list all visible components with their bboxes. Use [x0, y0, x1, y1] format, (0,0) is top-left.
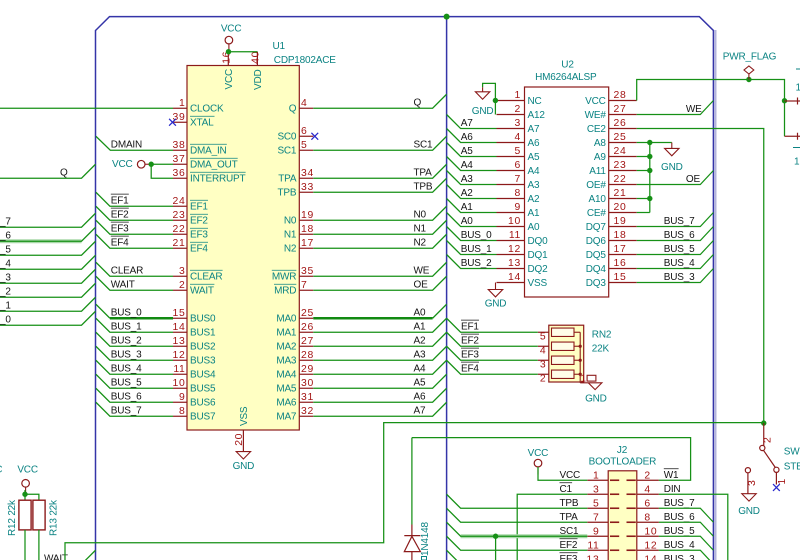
RN2 element 3	[552, 356, 575, 364]
svg-text:30: 30	[301, 378, 314, 389]
svg-text:7: 7	[593, 513, 599, 524]
RN2 pin 1 to ground	[579, 381, 581, 384]
svg-text:11: 11	[509, 230, 521, 241]
svg-text:MRD: MRD	[274, 286, 296, 297]
svg-text:11: 11	[587, 541, 599, 552]
svg-text:BUS_5: BUS_5	[111, 378, 142, 389]
svg-text:BUS_7: BUS_7	[111, 406, 142, 417]
svg-text:38: 38	[173, 140, 186, 151]
svg-text:GND: GND	[233, 461, 255, 472]
svg-text:BUS4: BUS4	[190, 370, 216, 381]
svg-text:VSS: VSS	[528, 278, 548, 289]
svg-text:TPA: TPA	[414, 168, 433, 179]
svg-text:24: 24	[173, 196, 186, 207]
svg-text:1: 1	[179, 98, 185, 109]
svg-text:A12: A12	[528, 110, 546, 121]
svg-text:29: 29	[301, 364, 314, 375]
GND rail vertical	[649, 143, 651, 213]
J2 pin 12	[637, 549, 659, 551]
svg-text:27: 27	[301, 336, 314, 347]
svg-text:A2: A2	[528, 194, 540, 205]
svg-text:12: 12	[173, 350, 186, 361]
svg-text:MA6: MA6	[276, 398, 297, 409]
U2 pin 18 (DQ6)	[609, 240, 637, 242]
svg-text:20: 20	[614, 202, 627, 213]
wire CE2 going right and down	[637, 129, 764, 424]
svg-text:SC1: SC1	[414, 140, 433, 151]
svg-text:WE#: WE#	[585, 110, 607, 121]
svg-text:28: 28	[614, 90, 627, 101]
svg-text:N1: N1	[414, 224, 427, 235]
junction VCC R12/R13	[22, 492, 27, 497]
junction VCC/DMA_OUT	[149, 162, 154, 167]
wire TPB with diagonal from frame	[447, 494, 588, 508]
svg-text:BUS_7: BUS_7	[0, 217, 11, 228]
svg-text:BUS_3: BUS_3	[111, 350, 142, 361]
svg-text:MA7: MA7	[276, 412, 297, 423]
wire BUS_6 at left edge with diagonal	[0, 239, 82, 243]
wire N1 to frame with diagonal	[313, 220, 446, 234]
svg-text:EF2: EF2	[190, 216, 208, 227]
svg-text:VDD: VDD	[253, 69, 264, 90]
svg-text:EF2: EF2	[461, 336, 479, 347]
RN2 common rail	[579, 332, 581, 382]
svg-text:15: 15	[614, 272, 627, 283]
svg-text:GND: GND	[585, 394, 607, 405]
svg-text:EF2: EF2	[560, 540, 578, 551]
svg-text:A2: A2	[461, 188, 473, 199]
U2 pin 9 (A1)	[497, 212, 525, 214]
wire BUS_5 from J2 to frame with diagonal	[659, 536, 714, 550]
svg-text:A0: A0	[414, 308, 426, 319]
svg-text:BUS_5: BUS_5	[0, 245, 11, 256]
svg-text:W1: W1	[664, 470, 679, 481]
wire BUS_3 at left edge with diagonal	[0, 269, 96, 283]
svg-text:13: 13	[587, 555, 600, 560]
U2 pin 24 (A9)	[609, 156, 637, 158]
svg-text:C1: C1	[560, 484, 573, 495]
svg-text:8: 8	[644, 513, 650, 524]
ground near U2 A8	[671, 143, 673, 149]
svg-text:3: 3	[179, 266, 185, 277]
svg-text:VCC: VCC	[17, 465, 38, 476]
U2 pin 28 (VCC)	[609, 100, 637, 102]
svg-text:BUS_3: BUS_3	[664, 272, 695, 283]
svg-text:EF1: EF1	[111, 196, 129, 207]
wire EF2 with diagonal from frame	[96, 206, 173, 220]
U1 pin 10 (BUS5)	[173, 387, 187, 389]
wire W1 branch down to diode	[411, 438, 413, 525]
svg-text:1: 1	[796, 83, 800, 94]
svg-text:BUS_7: BUS_7	[664, 498, 695, 509]
svg-text:31: 31	[301, 392, 314, 403]
U2 pin 12 (DQ1)	[497, 254, 525, 256]
svg-text:16: 16	[614, 258, 627, 269]
U1 pin 34 (TPA)	[299, 177, 313, 179]
svg-text:26: 26	[301, 322, 314, 333]
wire A7 to U2 with diagonal from frame	[447, 115, 497, 129]
J2 pin 8	[637, 521, 659, 523]
svg-text:BUS_6: BUS_6	[664, 230, 695, 241]
svg-text:DQ1: DQ1	[528, 250, 549, 261]
wire EF3 with diagonal from frame (clipped)	[447, 550, 588, 560]
svg-text:CLEAR: CLEAR	[111, 266, 143, 277]
svg-text:12: 12	[644, 541, 657, 552]
svg-text:21: 21	[173, 238, 186, 249]
svg-text:TPB: TPB	[560, 498, 579, 509]
J2 pin 6	[637, 507, 659, 509]
svg-text:NC: NC	[528, 96, 542, 107]
svg-text:14: 14	[508, 272, 521, 283]
wire below R12	[24, 530, 26, 560]
svg-text:TPA: TPA	[278, 174, 297, 185]
svg-text:MA0: MA0	[276, 314, 297, 325]
J2 pin 4	[637, 493, 659, 495]
wire MA1 to frame with diagonal	[313, 318, 446, 332]
graphic frame divider (blue vertical)	[446, 17, 448, 560]
U2 pin 26 (CE2)	[609, 128, 637, 130]
wire C1 from J2 pin 3	[517, 494, 587, 560]
wire EF4 with diagonal from frame	[96, 234, 173, 248]
U1 pin 19 (N0)	[299, 219, 313, 221]
svg-text:A6: A6	[528, 138, 540, 149]
svg-text:27: 27	[614, 104, 627, 115]
svg-text:WE: WE	[414, 266, 430, 277]
svg-text:DQ4: DQ4	[586, 264, 607, 275]
svg-text:BUS_2: BUS_2	[461, 258, 492, 269]
RN2 element 1	[552, 328, 575, 336]
U1 pin 11 (BUS4)	[173, 373, 187, 375]
U2 pin 16 (DQ4)	[609, 268, 637, 270]
IC U1 CDP1802ACE body	[187, 66, 299, 431]
svg-text:DQ7: DQ7	[586, 222, 607, 233]
svg-text:1: 1	[794, 157, 800, 168]
U2 pin 22 (OE#)	[609, 184, 637, 186]
wire BUS_5 to frame with diagonal	[637, 241, 714, 255]
U2 pin 17 (DQ5)	[609, 254, 637, 256]
U2 pin 7 (A3)	[497, 184, 525, 186]
U1 pin 24 (EF1)	[173, 205, 187, 207]
U1 pin 30 (MA5)	[299, 387, 313, 389]
svg-text:EF3: EF3	[190, 230, 208, 241]
wire BUS_7 to frame with diagonal	[637, 213, 714, 227]
U1 pin 39 (XTAL)	[173, 121, 187, 123]
wire BUS_0 to U2 with diagonal from frame	[447, 227, 497, 241]
svg-text:A7: A7	[461, 118, 473, 129]
wire BUS_4 to frame with diagonal	[637, 255, 714, 269]
svg-text:TPA: TPA	[560, 512, 579, 523]
U1 pin 33 (TPB)	[299, 191, 313, 193]
svg-text:N1: N1	[284, 230, 297, 241]
U2 pin 21 (A10)	[609, 198, 637, 200]
diode D? 1N4148	[411, 525, 413, 536]
svg-text:32: 32	[301, 406, 314, 417]
wire A4 to U2 with diagonal from frame	[447, 157, 497, 171]
svg-text:18: 18	[614, 230, 627, 241]
wire TPA to frame with diagonal	[313, 164, 446, 178]
svg-text:7: 7	[515, 174, 521, 185]
RN2 pin 4	[538, 345, 549, 347]
wire BUS_6 to frame with diagonal	[637, 227, 714, 241]
svg-text:EF3: EF3	[560, 554, 578, 560]
svg-text:3: 3	[747, 480, 758, 486]
U2 pin 11 (DQ0)	[497, 240, 525, 242]
junction at switch feed	[761, 420, 766, 425]
svg-text:17: 17	[301, 238, 314, 249]
svg-text:A5: A5	[414, 378, 426, 389]
svg-text:25: 25	[301, 308, 314, 319]
svg-text:MA1: MA1	[276, 328, 297, 339]
svg-text:2: 2	[515, 104, 521, 115]
svg-text:VCC: VCC	[112, 159, 133, 170]
U1 pin 26 (MA1)	[299, 331, 313, 333]
wire BUS_1 to U2 with diagonal from frame	[447, 241, 497, 255]
U2 pin 14 (VSS)	[497, 282, 525, 284]
U1 pin 8 (BUS7)	[173, 415, 187, 417]
U1 pin 25 (MA0)	[299, 317, 313, 319]
RN2 pin 2	[538, 373, 549, 375]
svg-text:A11: A11	[589, 166, 606, 177]
svg-text:VSS: VSS	[239, 406, 250, 426]
U2 pin 13 (DQ2)	[497, 268, 525, 270]
U1 pin 3 (CLEAR)	[173, 275, 187, 277]
wire SC1 to frame with diagonal	[313, 136, 446, 150]
svg-text:VCC: VCC	[585, 96, 606, 107]
svg-text:N0: N0	[284, 216, 297, 227]
svg-text:MWR: MWR	[272, 272, 296, 283]
wire A5 to U2 with diagonal from frame	[447, 143, 497, 157]
svg-text:EF4: EF4	[111, 238, 129, 249]
wire A9 to GND rail	[637, 156, 650, 158]
junction at U1 VCC	[226, 49, 231, 54]
svg-text:R12 22k: R12 22k	[7, 499, 18, 536]
graphic frame box A (blue outline, left/top/right)	[96, 17, 714, 560]
svg-text:8: 8	[515, 188, 521, 199]
wire DMAIN with diagonal from frame	[96, 136, 173, 150]
U1 pin 13 (BUS2)	[173, 345, 187, 347]
svg-text:BUS_4: BUS_4	[664, 540, 695, 551]
ground at switch	[742, 494, 756, 501]
svg-text:A6: A6	[461, 132, 473, 143]
svg-text:8: 8	[179, 406, 185, 417]
svg-text:1: 1	[777, 478, 788, 484]
ground at RN2	[580, 383, 602, 390]
svg-text:A1: A1	[528, 208, 540, 219]
J2 pin 3	[587, 493, 608, 495]
U1 pin 6 (SC0)	[299, 135, 313, 137]
U1 pin 14 (BUS1)	[173, 331, 187, 333]
ground at U2 VSS	[495, 283, 497, 290]
U1 pin 28 (MA3)	[299, 359, 313, 361]
svg-text:9: 9	[593, 527, 599, 538]
wire EF1 to RN2 with diagonal from frame	[447, 318, 538, 332]
svg-text:A0: A0	[461, 216, 473, 227]
svg-text:CE#: CE#	[587, 208, 606, 219]
svg-text:4: 4	[540, 346, 546, 357]
svg-text:OE: OE	[414, 280, 429, 291]
svg-text:BUS_1: BUS_1	[111, 322, 142, 333]
svg-text:MA4: MA4	[276, 370, 297, 381]
wire BUS_4 with diagonal from frame	[96, 360, 173, 374]
J2 pin 10	[637, 535, 659, 537]
wire BUS_3 with diagonal from frame	[96, 346, 173, 360]
connector J2 BOOTLOADER body	[608, 471, 637, 560]
svg-text:EF1: EF1	[461, 322, 479, 333]
svg-text:23: 23	[173, 210, 186, 221]
svg-text:MA3: MA3	[276, 356, 297, 367]
svg-text:J2: J2	[617, 445, 628, 456]
wire WAIT with diagonal from frame	[96, 276, 173, 290]
U1 pin 18 (N1)	[299, 233, 313, 235]
svg-text:DQ5: DQ5	[586, 250, 607, 261]
svg-text:XTAL: XTAL	[190, 118, 214, 129]
wire MA5 to frame with diagonal	[313, 374, 446, 388]
svg-text:BUS2: BUS2	[190, 342, 216, 353]
junction SC1	[493, 534, 498, 539]
wire long net to switch	[65, 423, 764, 560]
U2 pin 15 (DQ3)	[609, 282, 637, 284]
svg-text:SC1: SC1	[277, 146, 296, 157]
ground at U1 VSS	[236, 452, 250, 459]
junction at PWR_FLAG	[746, 77, 751, 82]
switch pin 3 to ground	[745, 468, 750, 473]
svg-text:Q: Q	[414, 98, 422, 109]
J2 pin 2	[637, 479, 659, 481]
svg-text:6: 6	[301, 126, 307, 137]
svg-text:EF1: EF1	[190, 202, 208, 213]
U2 pin 5 (A5)	[497, 156, 525, 158]
wire VCC to R13	[25, 494, 39, 500]
wire WE to frame with diagonal	[637, 101, 714, 115]
wire TPA with diagonal from frame	[447, 508, 588, 522]
RN2 pin 5	[538, 331, 549, 333]
U1 pin 16 (VCC) top	[227, 52, 229, 66]
svg-text:21: 21	[614, 188, 627, 199]
wire OE to frame with diagonal	[637, 171, 714, 185]
wire SC1 with diagonal from frame (highlighted)	[461, 534, 588, 538]
svg-text:40: 40	[251, 51, 262, 64]
svg-text:DMAIN: DMAIN	[111, 140, 142, 151]
svg-text:3: 3	[515, 118, 521, 129]
svg-text:BUS_6: BUS_6	[111, 392, 142, 403]
svg-text:2: 2	[762, 437, 773, 443]
svg-text:6: 6	[644, 499, 650, 510]
svg-text:2: 2	[179, 280, 185, 291]
svg-text:GND: GND	[738, 506, 760, 517]
U2 pin 19 (DQ7)	[609, 226, 637, 228]
wire BUS_6 with diagonal from frame	[96, 388, 173, 402]
J2 pin 11	[587, 549, 608, 551]
svg-text:VCC: VCC	[224, 69, 235, 90]
wire BUS_0 with diagonal from frame	[96, 304, 110, 318]
svg-text:BUS_5: BUS_5	[664, 244, 695, 255]
J2 pin 9	[587, 535, 608, 537]
svg-text:A4: A4	[461, 160, 473, 171]
U1 pin 20 (VSS) bottom	[242, 430, 244, 452]
svg-text:BUS_4: BUS_4	[664, 258, 695, 269]
wire VCC to DMA_OUT pin	[151, 163, 173, 165]
svg-text:33: 33	[301, 182, 314, 193]
junction at right component pin	[782, 98, 787, 103]
svg-text:WAIT: WAIT	[190, 286, 214, 297]
svg-text:10: 10	[173, 378, 186, 389]
U1 pin 35 (MWR)	[299, 275, 313, 277]
svg-text:BUS_6: BUS_6	[664, 512, 695, 523]
no-connect X on SC0 pin	[311, 133, 318, 140]
wire A3 to U2 with diagonal from frame	[447, 171, 497, 185]
wire below R13	[38, 530, 40, 560]
U1 pin 31 (MA6)	[299, 401, 313, 403]
wire EF3 to RN2 with diagonal from frame	[447, 346, 538, 360]
svg-text:13: 13	[173, 336, 186, 347]
svg-text:1N4148: 1N4148	[420, 522, 431, 556]
svg-text:3: 3	[593, 485, 599, 496]
svg-text:EF3: EF3	[461, 350, 479, 361]
svg-text:BUS_6: BUS_6	[0, 231, 11, 242]
svg-text:BUS_1: BUS_1	[461, 244, 492, 255]
svg-text:A10: A10	[588, 194, 606, 205]
wire N0 to frame with diagonal	[313, 206, 446, 220]
svg-text:CLEAR: CLEAR	[190, 272, 222, 283]
svg-text:28: 28	[301, 350, 314, 361]
wire BUS_5 with diagonal from frame	[96, 374, 173, 388]
wire MA4 to frame with diagonal	[313, 360, 446, 374]
U1 pin 27 (MA2)	[299, 345, 313, 347]
svg-text:BUS_2: BUS_2	[0, 287, 11, 298]
wire MA0 to frame with diagonal	[313, 317, 432, 320]
wire SC1 branch down	[495, 536, 497, 560]
U2 pin 6 (A4)	[497, 170, 525, 172]
wire CLEAR with diagonal from frame	[96, 262, 173, 276]
U1 pin 5 (SC1)	[299, 149, 313, 151]
svg-text:5: 5	[540, 332, 546, 343]
wire CLOCK from left edge	[0, 107, 173, 109]
wire MA3 to frame with diagonal	[313, 346, 446, 360]
wire Q from left edge with diagonal	[0, 164, 96, 178]
svg-text:VCC: VCC	[0, 465, 2, 476]
junction A8	[647, 140, 652, 145]
U1 pin 23 (EF2)	[173, 219, 187, 221]
svg-text:DMA_OUT: DMA_OUT	[190, 160, 238, 171]
svg-text:5: 5	[593, 499, 599, 510]
svg-text:A6: A6	[414, 392, 426, 403]
svg-text:17: 17	[614, 244, 627, 255]
J2 pin 7	[587, 521, 608, 523]
U2 pin 23 (A11)	[609, 170, 637, 172]
U2 pin 1 (NC)	[497, 100, 525, 102]
svg-text:DQ2: DQ2	[528, 264, 549, 275]
svg-text:A3: A3	[414, 350, 426, 361]
junction A10	[647, 196, 652, 201]
svg-text:36: 36	[173, 168, 186, 179]
svg-text:GND: GND	[485, 299, 507, 310]
U2 pin 8 (A2)	[497, 198, 525, 200]
svg-text:9: 9	[179, 392, 185, 403]
no-connect X on XTAL pin	[169, 119, 176, 126]
wire DIN going right and down	[659, 494, 728, 560]
svg-text:BUS_0: BUS_0	[461, 230, 492, 241]
resistor R12 22k	[19, 500, 31, 530]
svg-text:WAIT: WAIT	[44, 554, 68, 560]
svg-text:BOOTLOADER: BOOTLOADER	[589, 457, 656, 468]
wire TPB to frame with diagonal	[313, 178, 446, 192]
U1 pin 29 (MA4)	[299, 373, 313, 375]
U1 pin 15 (BUS0)	[173, 317, 187, 319]
svg-text:34: 34	[301, 168, 314, 179]
wire BUS_6 from J2 to frame with diagonal	[659, 522, 714, 536]
no-connect X at switch pin 1	[773, 484, 780, 491]
U2 pin 3 (A7)	[497, 128, 525, 130]
